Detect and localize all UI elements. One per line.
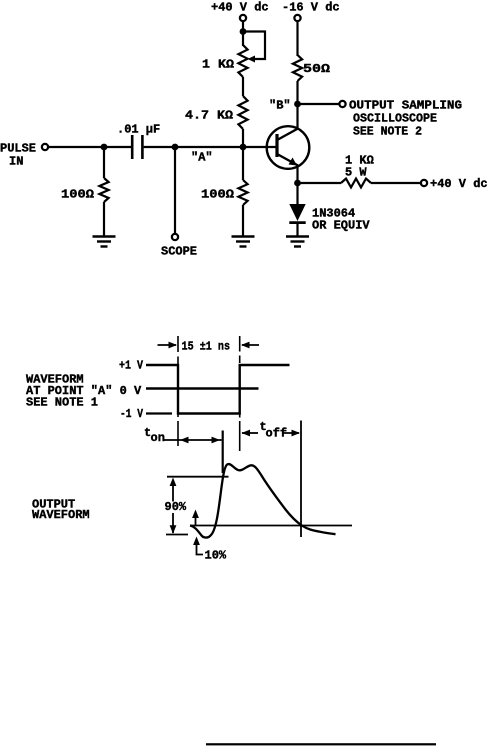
svg-text:15 ±1 ns: 15 ±1 ns <box>182 340 231 354</box>
90 percent level tick <box>167 476 229 478</box>
wiper arrowhead <box>248 56 256 63</box>
wire emitter node to R6 <box>298 182 342 184</box>
junction dot node A <box>240 144 247 151</box>
diode CR1 1N3064 triangle <box>289 204 305 221</box>
svg-text:90%: 90% <box>165 500 187 514</box>
wire emitter to emitter node <box>296 165 298 183</box>
junction dot pot top <box>240 28 247 35</box>
wire node A to right 100 ohm <box>242 147 244 180</box>
svg-text:PULSE: PULSE <box>0 142 36 156</box>
wire R4 to ground <box>242 205 244 237</box>
svg-text:10%: 10% <box>205 549 227 563</box>
svg-text:-1 V: -1 V <box>120 407 144 421</box>
svg-text:OUTPUT SAMPLING: OUTPUT SAMPLING <box>349 99 462 113</box>
90 percent dimension arrow up <box>170 478 177 487</box>
transistor Q1 emitter stroke <box>278 155 298 166</box>
t_on arrowhead left <box>180 437 189 444</box>
svg-text:on: on <box>151 431 165 445</box>
zero volt reference line <box>146 387 259 390</box>
extension line left (dashed) at input falling edge <box>177 336 179 352</box>
wire junction to R1 <box>242 32 244 47</box>
svg-text:"B": "B" <box>269 99 291 113</box>
wire R3 to ground <box>103 202 105 237</box>
terminal scope <box>172 234 178 240</box>
resistor R3 100 ohm (left) <box>99 178 108 202</box>
svg-text:4.7 KΩ: 4.7 KΩ <box>185 109 233 123</box>
svg-text:100Ω: 100Ω <box>201 188 234 202</box>
svg-text:OSCILLOSCOPE: OSCILLOSCOPE <box>353 112 437 126</box>
svg-text:WAVEFORM: WAVEFORM <box>32 508 90 522</box>
wire terminal to R5 <box>296 21 298 56</box>
resistor R1 1 Kohm potentiometer body <box>238 45 247 77</box>
ground G2 <box>232 235 255 237</box>
dimension t_off left arrow <box>242 430 251 437</box>
minus one volt tick <box>146 412 172 414</box>
resistor R2 4.7 Kohm <box>238 96 247 129</box>
svg-text:1 KΩ: 1 KΩ <box>202 58 234 72</box>
ground G1 <box>93 235 116 237</box>
svg-text:-16 V dc: -16 V dc <box>282 1 340 15</box>
t_on end bar (90% extension) <box>222 431 224 474</box>
wire node B to output terminal <box>298 103 340 105</box>
junction dot scope node <box>172 144 179 151</box>
wire R6 to +40V terminal <box>371 182 421 184</box>
svg-text:+1 V: +1 V <box>119 359 144 373</box>
svg-text:50Ω: 50Ω <box>303 62 330 76</box>
wire pulse-in to capacitor <box>48 146 131 148</box>
svg-text:SCOPE: SCOPE <box>161 245 197 259</box>
transistor Q1 base bar <box>275 134 278 157</box>
bottom rule <box>206 743 436 745</box>
resistor R6 1 Kohm 5 W <box>341 179 371 188</box>
transistor Q1 collector stroke <box>278 129 298 140</box>
terminal pulse in <box>42 144 48 150</box>
transistor Q1 emitter arrowhead <box>289 158 298 166</box>
junction dot left 100 ohm <box>101 144 108 151</box>
svg-text:+40 V dc: +40 V dc <box>430 177 488 191</box>
capacitor C1 .01 uF plates <box>131 135 134 159</box>
dimension 15 +/-1 ns right arrow <box>241 342 250 349</box>
transistor Q1 circle <box>267 126 310 169</box>
terminal +40V top <box>240 15 246 21</box>
terminal output sampling <box>339 101 345 107</box>
dimension t_on line <box>163 439 222 441</box>
svg-text:SEE NOTE 2: SEE NOTE 2 <box>353 125 422 139</box>
wiper wire of potentiometer <box>244 32 265 60</box>
wire node to left 100 ohm <box>103 147 105 178</box>
dimension 15 +/-1 ns left arrow <box>158 344 177 346</box>
svg-text:+40 V dc: +40 V dc <box>211 1 269 15</box>
wire emitter node to diode <box>296 183 298 205</box>
90 percent dimension arrow down <box>172 513 174 533</box>
wire scope node down <box>174 147 176 234</box>
emitter node junction dot <box>294 180 301 187</box>
svg-text:5 W: 5 W <box>345 166 367 180</box>
t_off end bar (10% extension) <box>300 421 302 538</box>
input square wave <box>146 365 290 414</box>
wire diode to ground <box>296 223 298 237</box>
svg-text:.01 μF: .01 μF <box>117 123 160 137</box>
ground G3 <box>286 235 309 237</box>
terminal +40V right <box>421 180 427 186</box>
node B junction dot <box>294 101 301 108</box>
svg-text:SEE NOTE 1: SEE NOTE 1 <box>26 396 98 410</box>
terminal -16V top <box>294 15 300 21</box>
diode CR1 cathode bar <box>289 221 305 224</box>
wire terminal to junction <box>242 21 244 30</box>
t_on arrowhead right <box>212 437 221 444</box>
output waveform curve <box>190 464 336 538</box>
wire R5 to node B <box>296 81 298 104</box>
svg-text:100Ω: 100Ω <box>61 188 94 202</box>
svg-text:OR EQUIV: OR EQUIV <box>312 219 370 233</box>
base level tick <box>166 534 188 536</box>
svg-text:IN: IN <box>9 155 23 169</box>
wire capacitor to base <box>144 146 277 148</box>
wire R1 to R2 <box>242 77 244 96</box>
wire R2 to node A <box>242 129 244 147</box>
resistor R4 100 ohm (right) <box>238 180 247 205</box>
dimension t_off right arrow <box>282 432 299 434</box>
wire collector to node B <box>296 106 298 129</box>
output baseline <box>190 525 352 527</box>
10 percent leader arrow <box>193 537 200 546</box>
extension line right (dashed) at input rising edge <box>239 336 241 352</box>
resistor R5 50 ohm <box>293 55 302 81</box>
10 percent small arrow above baseline <box>192 510 199 519</box>
svg-text:"A": "A" <box>191 151 213 165</box>
